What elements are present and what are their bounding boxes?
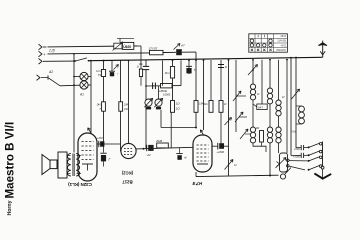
svg-text:1MFE: 1MFE	[159, 89, 168, 93]
svg-text:Dm: Dm	[204, 102, 209, 106]
svg-text:047: 047	[258, 106, 263, 110]
svg-text:A1: A1	[79, 93, 84, 97]
svg-text:+FM: +FM	[97, 136, 103, 140]
svg-text:A7: A7	[180, 44, 185, 48]
svg-text:0m: 0m	[139, 62, 144, 66]
svg-text:Horny: Horny	[7, 200, 13, 215]
svg-text:1ℓ: 1ℓ	[224, 102, 227, 106]
svg-text:C32N (KL1): C32N (KL1)	[68, 182, 92, 187]
svg-text:A2: A2	[48, 70, 53, 74]
svg-text:(KC2): (KC2)	[121, 171, 133, 176]
svg-text:17Y07: 17Y07	[149, 46, 158, 50]
svg-text:1ℓ: 1ℓ	[282, 95, 285, 99]
svg-text:AB13: AB13	[280, 35, 287, 38]
svg-text:nℓ: nℓ	[184, 156, 187, 160]
svg-text:1ℓ: 1ℓ	[257, 92, 260, 96]
svg-text:tl M: tl M	[291, 130, 296, 134]
svg-text:2(AA36): 2(AA36)	[277, 40, 286, 43]
svg-text:B217: B217	[122, 180, 133, 185]
svg-text:ZHB: ZHB	[155, 139, 162, 143]
svg-text:2.(f): 2.(f)	[48, 49, 55, 53]
svg-text:VNE000C: VNE000C	[276, 50, 287, 52]
svg-text:+M: +M	[147, 153, 152, 157]
svg-text:Ü620: Ü620	[123, 44, 131, 49]
svg-text:+1000: +1000	[217, 150, 225, 154]
svg-text:4V31: 4V31	[281, 44, 287, 47]
svg-text:Maestro B VI/I: Maestro B VI/I	[4, 122, 17, 199]
svg-text:73: 73	[98, 73, 102, 77]
svg-text:10000: 10000	[163, 93, 171, 97]
svg-text:Ωm: Ωm	[165, 71, 170, 75]
svg-text:E∠H: E∠H	[193, 181, 204, 186]
svg-text:2M: 2M	[123, 103, 129, 107]
